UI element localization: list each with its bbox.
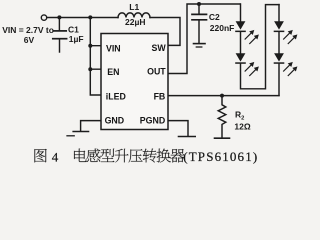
svg-text:C1: C1 [68, 24, 79, 34]
caption char 升 [115, 149, 129, 163]
svg-text:iLED: iLED [106, 92, 126, 102]
capacitor C1 [58, 17, 60, 30]
svg-text:22µH: 22µH [125, 17, 146, 27]
node top rail / C2 junction [197, 2, 201, 6]
wire OUT to top rail [169, 4, 241, 74]
node VIN pin junction [88, 44, 92, 48]
svg-text:PGND: PGND [140, 116, 165, 126]
wire FB line [169, 95, 280, 97]
wire PGND to ground [169, 121, 189, 136]
LED D2 [236, 53, 246, 61]
node input rail / feed junction [88, 15, 92, 19]
wire col1 bottom return loop [241, 5, 280, 89]
caption char 转 [143, 149, 157, 163]
wire GND to ground [81, 121, 101, 131]
node FB / R2 junction [220, 94, 224, 98]
svg-text:L1: L1 [129, 2, 139, 12]
input terminal circle [41, 15, 46, 20]
svg-text:220nF: 220nF [210, 23, 235, 33]
LED D2 emission arrows [245, 63, 254, 72]
caption char 压 [129, 149, 143, 162]
svg-text:GND: GND [105, 116, 125, 126]
LED D3 [274, 21, 284, 29]
svg-text:VIN = 2.7V to: VIN = 2.7V to [2, 25, 54, 35]
svg-text:1µF: 1µF [69, 34, 84, 44]
caption char 型 [101, 149, 115, 162]
svg-text:EN: EN [107, 67, 119, 77]
ground GND [73, 131, 88, 133]
node EN pin junction [88, 67, 92, 71]
caption char 器 [170, 149, 184, 163]
svg-text:(TPS61061): (TPS61061) [183, 149, 257, 164]
LED D3 emission arrows [283, 31, 292, 40]
caption char 感 [87, 149, 101, 162]
LED D1 emission arrows [245, 31, 254, 40]
wire VIN/EN/iLED feed [90, 17, 101, 95]
svg-text:6V: 6V [24, 35, 35, 45]
wire L1 to SW drop [150, 18, 180, 46]
node input rail / C1 junction [57, 15, 61, 19]
LED D4 [274, 53, 284, 61]
ground PGND [179, 136, 196, 138]
capacitor C2 [198, 4, 200, 14]
wire LED column 1 [240, 4, 242, 21]
LED D1 [236, 21, 246, 29]
resistor R2 [218, 96, 226, 138]
wire LED column 2 [278, 5, 280, 96]
svg-text:FB: FB [154, 91, 166, 101]
caption char 换 [157, 149, 171, 163]
ground C2 [194, 43, 206, 45]
svg-text:OUT: OUT [147, 67, 166, 77]
svg-text:SW: SW [152, 43, 167, 53]
svg-text:12Ω: 12Ω [234, 121, 250, 131]
caption char 图 [34, 149, 46, 162]
ground R2 [215, 137, 230, 139]
svg-text:VIN: VIN [106, 43, 121, 53]
IC U1 TPS61061 body [101, 34, 168, 130]
LED D4 emission arrows [283, 63, 292, 72]
svg-text:4: 4 [52, 149, 59, 164]
svg-text:C2: C2 [209, 12, 220, 22]
inductor L1 [118, 13, 150, 18]
caption char 电 [74, 149, 87, 162]
wire input rail to L1 [47, 17, 118, 19]
